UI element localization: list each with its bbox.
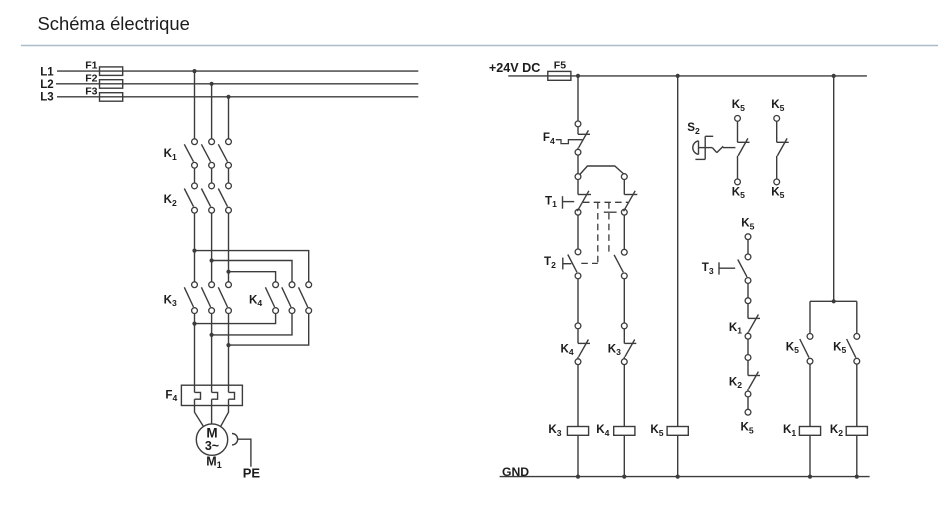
svg-text:K5: K5	[741, 217, 754, 232]
svg-text:K3: K3	[608, 342, 621, 357]
wire K2-K3 a	[194, 213, 196, 282]
coil K3	[567, 427, 588, 436]
svg-text:F4: F4	[165, 388, 177, 403]
wire coil K1 to GND	[809, 435, 811, 476]
svg-text:K3: K3	[548, 423, 561, 438]
wire K4 return a	[195, 314, 276, 324]
fuse F2	[100, 80, 123, 89]
contact T1 NC right	[621, 174, 637, 215]
wire F4 to T1	[577, 155, 579, 174]
timer symbol T1	[563, 196, 575, 209]
node GND K1	[808, 475, 812, 479]
contactor K1 pole 1	[184, 139, 197, 168]
wire K4 return c	[229, 314, 309, 346]
node GND K3	[576, 475, 580, 479]
svg-text:K2: K2	[729, 375, 742, 390]
wire K3 down b	[211, 314, 213, 386]
wire K2-K3 b	[211, 213, 213, 282]
contactor K2 pole 2	[201, 183, 214, 213]
separator rule	[21, 45, 938, 47]
thermal release symbol F4	[556, 140, 583, 144]
wire T1-T2 left	[577, 215, 579, 249]
label K5 fork left	[786, 340, 799, 355]
svg-text:F2: F2	[85, 72, 97, 84]
coil K1	[799, 427, 820, 436]
svg-text:K1: K1	[729, 321, 742, 336]
wire bus to coil K5	[677, 76, 679, 427]
node fork	[832, 299, 836, 303]
wire L3	[57, 96, 418, 98]
svg-text:T3: T3	[702, 261, 714, 276]
timer symbol T2	[563, 258, 572, 270]
svg-text:T1: T1	[545, 194, 557, 209]
wire L2	[56, 83, 418, 85]
wire T2 to K4NC	[577, 279, 579, 323]
wire +24V bus	[508, 75, 867, 77]
wire crossover b	[212, 261, 292, 282]
label K5 fork right	[833, 340, 846, 355]
svg-text:S2: S2	[687, 121, 700, 136]
coil K2	[846, 427, 867, 436]
contactor K4 pole 3	[299, 282, 312, 314]
label F1	[85, 60, 97, 72]
wire GND rail	[500, 476, 870, 478]
contactor K2 pole 3	[218, 183, 231, 213]
svg-text:F3: F3	[85, 85, 97, 97]
svg-text:F5: F5	[554, 60, 566, 72]
contact K4 NC	[575, 323, 590, 365]
node L2 tap	[210, 82, 214, 86]
label +24V DC	[489, 61, 540, 75]
node merge c	[226, 343, 230, 347]
wire L1 drop	[194, 71, 196, 139]
svg-text:K1: K1	[164, 147, 177, 162]
label K5 colB bottom	[771, 185, 784, 200]
contact T1 NC left	[575, 174, 591, 215]
wire K4 return b	[212, 314, 292, 335]
label K4 interlock	[561, 342, 574, 357]
terminal chain bottom	[745, 409, 751, 415]
wire K3 down a	[194, 314, 196, 386]
label F4 overload	[165, 388, 177, 403]
node bus V1	[576, 74, 580, 78]
overload relay F4 block	[181, 385, 242, 405]
svg-text:K4: K4	[596, 423, 609, 438]
pushbutton S2 actuator	[693, 136, 736, 159]
label GND	[502, 465, 529, 479]
wire coil K4 to GND	[623, 435, 625, 476]
label K5 colA top	[732, 98, 745, 113]
wire coil K5 to GND	[677, 435, 679, 476]
svg-text:K2: K2	[164, 193, 177, 208]
label PE	[243, 466, 261, 481]
label T1	[545, 194, 557, 209]
label K4	[249, 293, 262, 308]
mechanical linkage dashed	[581, 202, 628, 263]
contact K3 NC	[621, 323, 636, 365]
node crossover b	[210, 258, 214, 262]
label T2	[544, 255, 556, 270]
wire L2 drop	[211, 84, 213, 139]
label K2 chain	[729, 375, 742, 390]
label coil K2	[830, 423, 843, 438]
fuse F3	[100, 93, 123, 102]
contactor K1 pole 3	[218, 139, 231, 168]
coil K4	[614, 427, 635, 436]
svg-text:F1: F1	[85, 60, 97, 72]
wire K1-K2 c	[228, 168, 230, 183]
node bus V3	[832, 74, 836, 78]
wire bus to fork	[833, 76, 835, 301]
wire K3NC to coil K4	[623, 365, 625, 427]
label F5	[554, 60, 566, 72]
label coil K4	[596, 423, 609, 438]
contactor K3 pole 3	[218, 282, 231, 314]
svg-text:K5: K5	[741, 421, 754, 436]
svg-text:K4: K4	[249, 293, 262, 308]
svg-text:PE: PE	[243, 466, 261, 481]
contact K5 colB NC	[774, 116, 789, 185]
svg-text:K5: K5	[771, 98, 784, 113]
label coil K3	[548, 423, 561, 438]
wire fork horizontal	[810, 300, 857, 302]
contactor K4 pole 1	[265, 282, 278, 314]
svg-text:K4: K4	[561, 342, 574, 357]
svg-text:K5: K5	[786, 340, 799, 355]
node L3 tap	[226, 95, 230, 99]
label K1	[164, 147, 177, 162]
svg-text:K5: K5	[771, 185, 784, 200]
label coil K1	[783, 423, 796, 438]
label M1	[206, 454, 221, 470]
svg-text:K5: K5	[833, 340, 846, 355]
contactor K3 pole 1	[184, 282, 197, 314]
node GND K2	[855, 475, 859, 479]
svg-text:F4: F4	[543, 131, 555, 146]
wire coil K3 to GND	[577, 435, 579, 476]
contact K5 colA NC	[735, 116, 750, 185]
contactor K2 pole 1	[184, 183, 197, 213]
svg-text:Schéma électrique: Schéma électrique	[38, 13, 190, 34]
wire coil K2 to GND	[856, 435, 858, 476]
label coil K5	[650, 423, 663, 438]
svg-text:K3: K3	[164, 293, 177, 308]
svg-text:T2: T2	[544, 255, 556, 270]
svg-text:K2: K2	[830, 423, 843, 438]
wire chain 2	[747, 283, 749, 297]
motor M1	[196, 424, 227, 455]
label T3	[702, 261, 714, 276]
label K5 chain top	[741, 217, 754, 232]
label K5 chain bottom	[741, 421, 754, 436]
label K1 chain	[729, 321, 742, 336]
contact K1 NC chain	[745, 298, 760, 339]
svg-text:K1: K1	[783, 423, 796, 438]
label L3	[40, 92, 53, 104]
label F2	[85, 72, 97, 84]
wire K2-K3 c	[228, 213, 230, 282]
node crossover a	[192, 249, 196, 253]
wire chain 1	[747, 240, 749, 254]
label L1	[40, 66, 54, 78]
wire T2 to K3NC	[623, 279, 625, 323]
contact T2 NO left	[568, 249, 581, 279]
contactor K1 pole 2	[201, 139, 214, 168]
node crossover c	[226, 270, 230, 274]
wire K3 down c	[228, 314, 230, 386]
contactor K4 pole 2	[282, 282, 295, 314]
contact K5 NO left	[800, 334, 813, 365]
contact T2 NO right	[614, 249, 627, 278]
fuse F1	[100, 67, 123, 76]
label F3	[85, 85, 97, 97]
contact T3 NO	[738, 254, 751, 283]
node GND K5	[676, 475, 680, 479]
svg-text:K5: K5	[650, 423, 663, 438]
svg-text:K5: K5	[732, 98, 745, 113]
wire chain 4	[747, 397, 749, 409]
wire T1 branch fork	[580, 166, 625, 175]
label K2	[164, 193, 177, 208]
node L1 tap	[192, 69, 196, 73]
wire K1-K2 b	[211, 168, 213, 183]
contact F4 NC	[575, 121, 590, 155]
svg-text:L2: L2	[40, 79, 53, 91]
wire K4NC to coil K3	[577, 365, 579, 427]
wire bus to F4	[577, 76, 579, 121]
label S2	[687, 121, 700, 136]
timer symbol T3	[719, 262, 735, 274]
wire crossover c	[229, 272, 276, 282]
wire K5NO to coil K2	[856, 364, 858, 426]
svg-text:+24V DC: +24V DC	[489, 61, 540, 75]
svg-text:M1: M1	[206, 454, 221, 470]
svg-text:L3: L3	[40, 92, 53, 104]
svg-text:K5: K5	[732, 185, 745, 200]
wire crossover a	[195, 251, 309, 282]
svg-text:3~: 3~	[205, 439, 219, 453]
label K3	[164, 293, 177, 308]
wire L1	[57, 70, 418, 72]
contact K5 NO right	[847, 334, 860, 365]
label F4 contact	[543, 131, 555, 146]
label K3 interlock	[608, 342, 621, 357]
PE clamp and wire	[232, 434, 251, 467]
node GND K4	[622, 475, 626, 479]
label K5 colA bottom	[732, 185, 745, 200]
wire L3 drop	[228, 97, 230, 139]
wire fork left drop	[809, 301, 811, 333]
wire motor feed b	[211, 406, 213, 424]
contactor K3 pole 2	[201, 282, 214, 314]
wire fork right drop	[856, 301, 858, 333]
wire K1-K2 a	[194, 168, 196, 183]
node merge b	[210, 333, 214, 337]
wire T1-T2 right	[623, 215, 625, 249]
contact K2 NC chain	[745, 355, 760, 397]
coil K5	[667, 427, 688, 436]
terminal chain top	[745, 234, 751, 240]
node merge a	[192, 322, 196, 326]
label L2	[40, 79, 53, 91]
fuse F5	[548, 71, 571, 80]
svg-text:L1: L1	[40, 66, 54, 78]
wire motor feed a	[195, 406, 204, 427]
label K5 colB top	[771, 98, 784, 113]
wire K5NO to coil K1	[809, 364, 811, 426]
wire chain 3	[747, 339, 749, 355]
node bus V2	[676, 74, 680, 78]
wire motor feed c	[221, 406, 229, 427]
